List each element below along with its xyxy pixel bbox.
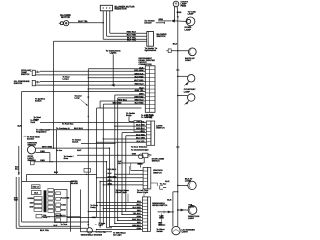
svg-text:BLK YEL: BLK YEL — [137, 140, 146, 143]
svg-text:To Acc: To Acc — [56, 149, 63, 152]
svg-text:Switch: Switch — [157, 230, 164, 233]
svg-text:GRN BLK: GRN BLK — [134, 72, 144, 75]
svg-text:BLU RED: BLU RED — [113, 101, 122, 104]
svg-text:light/switch: light/switch — [145, 49, 157, 52]
svg-text:BLU RED: BLU RED — [136, 133, 145, 136]
svg-text:To Turn: To Turn — [61, 223, 69, 226]
svg-text:SWITCH: SWITCH — [153, 171, 162, 174]
svg-text:WHT/BLK A: WHT/BLK A — [56, 214, 66, 217]
svg-text:To windshield light: To windshield light — [131, 148, 149, 151]
svg-text:RED: RED — [40, 150, 45, 153]
svg-text:BLK: BLK — [17, 125, 22, 128]
svg-text:GRN: GRN — [177, 11, 182, 14]
svg-text:To Turn Sig: To Turn Sig — [96, 231, 107, 234]
svg-text:Lamps: Lamps — [63, 78, 69, 81]
svg-text:Sender: Sender — [27, 137, 34, 140]
svg-text:BLK: BLK — [34, 192, 38, 195]
svg-text:GRN: GRN — [108, 183, 113, 186]
svg-text:RED BLU: RED BLU — [108, 168, 117, 171]
svg-text:LIGHT: LIGHT — [182, 230, 189, 233]
svg-text:Illum: Illum — [64, 157, 69, 160]
svg-text:HORN: HORN — [28, 197, 34, 200]
svg-text:RED LT: RED LT — [32, 186, 39, 189]
svg-text:Clutch: Clutch — [72, 141, 79, 144]
svg-text:RED: RED — [137, 221, 142, 224]
svg-text:STOP: STOP — [61, 208, 67, 211]
svg-text:LAMP: LAMP — [185, 28, 192, 31]
svg-text:YEL BLK: YEL BLK — [133, 212, 142, 215]
svg-text:WHT BLK: WHT BLK — [132, 218, 141, 221]
svg-text:BLU RED: BLU RED — [132, 206, 141, 209]
svg-text:RESISTOR: RESISTOR — [115, 8, 127, 11]
svg-text:BLK RED: BLK RED — [136, 124, 145, 127]
svg-text:BLU RED: BLU RED — [135, 102, 144, 105]
svg-text:To Turn Sig: To Turn Sig — [141, 116, 153, 119]
svg-text:GRN: GRN — [159, 18, 164, 21]
svg-text:RED BLU: RED BLU — [135, 99, 144, 102]
svg-text:GRN: GRN — [140, 130, 145, 133]
svg-text:BLU: BLU — [137, 200, 141, 203]
svg-text:SWITCH: SWITCH — [21, 73, 30, 76]
svg-text:BLU: BLU — [139, 86, 144, 89]
svg-text:LIGHT: LIGHT — [188, 217, 195, 220]
svg-text:RED BLK: RED BLK — [136, 127, 145, 130]
svg-text:Light: Light — [99, 224, 104, 227]
svg-text:SWITCH: SWITCH — [152, 159, 160, 162]
svg-text:Sw Light: Sw Light — [113, 234, 122, 237]
svg-text:LAMP: LAMP — [184, 90, 191, 93]
svg-text:LAMP: LAMP — [188, 13, 195, 16]
svg-text:WIPER SWITCH: WIPER SWITCH — [152, 204, 168, 207]
svg-text:blower: blower — [144, 21, 151, 24]
svg-text:BLU RED: BLU RED — [127, 34, 137, 37]
svg-text:SWITCH: SWITCH — [156, 126, 165, 129]
svg-text:RED: RED — [108, 179, 113, 182]
svg-text:GRN: GRN — [92, 216, 97, 219]
svg-text:GRN: GRN — [139, 93, 144, 96]
svg-text:BLK: BLK — [108, 172, 113, 175]
svg-text:Supp.: Supp. — [126, 114, 132, 117]
svg-text:GRN: GRN — [132, 153, 137, 156]
svg-text:Lamp: Lamp — [75, 97, 81, 100]
svg-text:GRN YEL: GRN YEL — [135, 89, 145, 92]
svg-text:BLK GRN: BLK GRN — [136, 137, 145, 140]
svg-text:BLK BLU: BLK BLU — [74, 127, 83, 130]
svg-text:SWITCH: SWITCH — [14, 82, 23, 85]
svg-text:SWITCH: SWITCH — [157, 35, 166, 38]
svg-text:LIGHT: LIGHT — [188, 205, 195, 208]
svg-text:BLK YEL: BLK YEL — [127, 39, 137, 42]
svg-text:FEED: FEED — [181, 4, 187, 7]
svg-text:Direct Light: Direct Light — [116, 191, 127, 194]
svg-text:BLK YEL: BLK YEL — [78, 20, 88, 23]
svg-text:WINDSHIELD WASHER: WINDSHIELD WASHER — [81, 234, 103, 237]
svg-text:Switch: Switch — [35, 100, 42, 103]
svg-text:BLU: BLU — [15, 168, 19, 171]
svg-text:BLK: BLK — [173, 43, 178, 46]
svg-text:BLADE: BLADE — [71, 182, 79, 185]
svg-text:Lights: Lights — [110, 52, 117, 55]
svg-text:RED BLU: RED BLU — [118, 98, 127, 101]
svg-text:WHT RED: WHT RED — [134, 79, 144, 82]
svg-text:GRN YEL: GRN YEL — [136, 121, 145, 124]
svg-text:MOTOR: MOTOR — [61, 16, 70, 19]
svg-text:BLK YEL: BLK YEL — [40, 229, 50, 232]
svg-text:GRN RED: GRN RED — [108, 175, 118, 178]
svg-text:GRN: GRN — [137, 227, 142, 230]
svg-text:WHT GRN: WHT GRN — [42, 145, 53, 148]
svg-text:BLK: BLK — [167, 199, 172, 202]
svg-text:RED: RED — [137, 209, 142, 212]
svg-text:BLK: BLK — [158, 223, 162, 226]
svg-text:BLK RED: BLK RED — [135, 75, 144, 78]
svg-text:To Acc: To Acc — [160, 182, 167, 185]
svg-text:To Door Switches: To Door Switches — [131, 146, 147, 149]
svg-text:GRN RED: GRN RED — [134, 95, 144, 98]
svg-text:BLK: BLK — [54, 224, 58, 227]
svg-text:Relay: Relay — [90, 206, 96, 209]
svg-text:RED GRN: RED GRN — [134, 69, 144, 72]
svg-text:LAMP: LAMP — [185, 180, 192, 183]
svg-text:Tank: Tank — [30, 121, 36, 124]
svg-text:Direct Light: Direct Light — [137, 191, 148, 194]
svg-text:RED BLU: RED BLU — [135, 83, 144, 86]
svg-text:Regulator: Regulator — [36, 131, 47, 134]
svg-text:RED: RED — [138, 163, 143, 166]
svg-text:FLASHER: FLASHER — [61, 196, 70, 199]
svg-text:RED: RED — [40, 159, 45, 162]
svg-text:GRN: GRN — [137, 215, 142, 218]
svg-text:To Fuel Gau: To Fuel Gau — [62, 122, 74, 125]
svg-text:LIGHT: LIGHT — [185, 59, 192, 62]
svg-text:TURN: TURN — [61, 204, 67, 207]
svg-text:RED BLK: RED BLK — [127, 31, 137, 34]
svg-text:To Courtesy &: To Courtesy & — [56, 127, 70, 130]
